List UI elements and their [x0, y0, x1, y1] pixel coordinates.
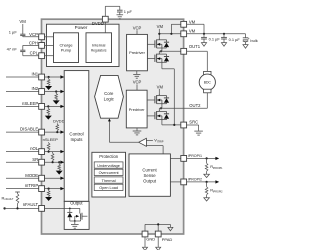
wire IPROPI2 output: [187, 180, 220, 183]
wire DVDD pin to external cap: [105, 6, 120, 16]
svg-text:OUT1: OUT1: [189, 44, 201, 49]
wire MODE to control inputs: [45, 177, 65, 180]
wire IN1 to control inputs: [45, 75, 65, 78]
node OUT2 label: [189, 103, 201, 108]
svg-text:RnFAULT: RnFAULT: [2, 195, 14, 201]
resistor R_nFAULT pull-up: [15, 192, 20, 209]
svg-text:IPROPI2: IPROPI2: [188, 178, 202, 182]
transistor Q4 low-side 2: [147, 110, 169, 120]
wire MODE external lead: [6, 177, 39, 179]
svg-text:VM: VM: [157, 24, 164, 29]
svg-text:Protection: Protection: [99, 154, 119, 159]
node VM half-bridge 2: [157, 84, 164, 95]
undervoltage block: [94, 162, 123, 168]
ground C6: [243, 45, 248, 49]
predriver 2 block: [126, 90, 147, 128]
svg-text:DVDD: DVDD: [92, 21, 104, 26]
pin DISABLE: [20, 127, 44, 135]
power block: [47, 24, 120, 66]
svg-text:MODE: MODE: [25, 173, 38, 178]
svg-text:Control: Control: [69, 132, 83, 137]
capacitor C4 0.1uF: [201, 34, 220, 43]
wire SR to control inputs: [45, 161, 65, 164]
svg-text:CPL: CPL: [30, 51, 39, 56]
ground R_IPROPI1: [204, 174, 210, 177]
svg-text:PPAD: PPAD: [162, 237, 173, 242]
wire nSLEEP external lead: [6, 105, 39, 107]
svg-text:nFAULT: nFAULT: [23, 202, 39, 207]
resistor R_IPROPI1: [205, 158, 208, 174]
resistor DISABLE pull-up to DVDD: [56, 123, 59, 133]
transistor Q2 low-side 1: [147, 53, 169, 63]
svg-text:VCP: VCP: [133, 25, 142, 30]
pin IN1: [32, 72, 45, 80]
pin VCP: [29, 32, 44, 40]
svg-text:Output: Output: [70, 201, 83, 206]
resistor nOL pull-up to nSLEEP rail: [47, 142, 50, 153]
pin VM 2: [181, 29, 196, 37]
ground GND: [143, 247, 148, 250]
pin CPH: [29, 40, 45, 48]
thermal block: [94, 177, 123, 183]
svg-text:+: +: [248, 37, 250, 41]
ground SR pulldown: [56, 171, 63, 175]
wire IN1 external lead: [6, 76, 39, 78]
ground C4: [201, 43, 206, 47]
pin IN2: [32, 86, 45, 94]
svg-text:Output: Output: [143, 178, 157, 183]
resistor IN1 pulldown: [47, 76, 50, 86]
node DVDD pull-up rail: [53, 119, 64, 124]
svg-text:Logic: Logic: [104, 97, 115, 102]
ground IN1 pulldown: [45, 86, 52, 90]
svg-text:Undervoltage: Undervoltage: [97, 164, 120, 168]
wire comparator input from current sense: [146, 146, 163, 154]
pin nSLEEP: [22, 101, 45, 109]
wire Q4 source to SRC pin: [162, 120, 181, 126]
ground predriver 2: [133, 128, 142, 135]
wire GND down: [144, 237, 146, 247]
wire IN2 external lead: [6, 91, 39, 93]
pin GND: [142, 231, 155, 242]
wire nOL external lead: [6, 151, 39, 153]
ground PPAD: [156, 247, 161, 250]
svg-text:IN2: IN2: [32, 86, 39, 91]
resistor R_IPROPI2: [205, 182, 208, 198]
wire C2 to VCP pin: [23, 36, 39, 37]
output block: [64, 201, 89, 230]
transistor Q3 high-side 2: [147, 94, 169, 104]
pin nFAULT: [23, 202, 45, 211]
svg-text:SRC: SRC: [189, 120, 198, 125]
wire nFAULT external: [3, 207, 38, 209]
svg-text:Sense: Sense: [144, 173, 157, 178]
svg-text:SR: SR: [32, 157, 38, 162]
node VCP predriver 2: [133, 80, 142, 91]
svg-text:nOL: nOL: [30, 146, 39, 151]
wire nOL to control inputs: [45, 150, 65, 153]
svg-text:1 µF: 1 µF: [9, 30, 18, 35]
svg-text:IPROPI1: IPROPI1: [188, 154, 202, 158]
wire SRC to ground: [187, 125, 199, 131]
ground C5: [221, 43, 226, 47]
ground nSLEEP pulldown: [45, 116, 52, 120]
pin PPAD: [155, 231, 172, 242]
protection block: [92, 152, 126, 197]
ground R_IPROPI2: [204, 198, 210, 201]
resistor nITRIP pulldown: [47, 188, 50, 198]
svg-text:nSLEEP: nSLEEP: [43, 137, 58, 142]
svg-text:0.1 µF: 0.1 µF: [209, 37, 221, 42]
predriver 1 block: [127, 34, 148, 70]
svg-text:1 µF: 1 µF: [124, 9, 133, 14]
pin CPL: [30, 51, 45, 59]
svg-text:Regulators: Regulators: [91, 48, 107, 53]
wire VCP to charge pump: [45, 36, 54, 38]
ground nITRIP pulldown: [45, 197, 52, 201]
node VCP predriver 1: [133, 25, 142, 34]
wire VM pins to capacitors: [187, 24, 246, 35]
core logic block: [95, 75, 124, 118]
svg-text:Overcurrent: Overcurrent: [99, 171, 120, 175]
resistor SR pulldown: [58, 161, 61, 171]
wire DISABLE external lead: [6, 131, 39, 133]
pin VM 1: [181, 19, 196, 27]
pin IPROPI2: [181, 178, 202, 185]
svg-text:nITRIP: nITRIP: [25, 183, 39, 188]
pin OUT1: [181, 44, 201, 54]
wire IN2 to control inputs: [45, 90, 65, 93]
svg-text:VM: VM: [189, 29, 196, 34]
charge pump block: [54, 33, 79, 63]
wire nITRIP to control inputs: [45, 187, 65, 190]
svg-text:Current: Current: [142, 168, 157, 173]
wire CPL to charge pump: [45, 55, 54, 57]
wire OUT1 to motor: [187, 51, 208, 71]
svg-text:Inputs: Inputs: [71, 137, 84, 142]
svg-text:Predriver: Predriver: [129, 50, 145, 55]
label R_IPROPI2: [210, 188, 223, 194]
wire motor to OUT2: [187, 93, 207, 109]
pin IPROPI1: [181, 154, 202, 161]
svg-text:0.1 µF: 0.1 µF: [229, 37, 241, 42]
svg-text:Thermal: Thermal: [102, 179, 116, 183]
resistor between nOL and SR lines: [51, 152, 54, 164]
capacitor C3 47nF: [7, 46, 26, 51]
transistor Q1 high-side 1: [147, 39, 169, 49]
node V_ITRIP reference: [146, 138, 163, 144]
pin MODE: [25, 173, 44, 181]
wire CPH to cap C3: [23, 45, 39, 50]
wire CPH to charge pump: [45, 44, 54, 46]
label R_IPROPI1: [210, 164, 223, 170]
svg-text:VCP: VCP: [133, 80, 142, 85]
wire current sense to IPROPI2: [170, 181, 180, 183]
svg-text:VM: VM: [19, 19, 26, 24]
resistor IN2 pulldown: [55, 90, 58, 100]
chip outline (gray block): [42, 19, 184, 234]
wire VM pins to bridge rail: [158, 24, 181, 35]
svg-text:VCP: VCP: [29, 32, 38, 37]
ground in output block: [71, 221, 79, 228]
wire SR external lead: [6, 161, 39, 163]
wire node OUT2: [159, 104, 187, 112]
pin SR: [32, 157, 44, 165]
pin nOL: [30, 146, 44, 154]
svg-text:RIPROPI2: RIPROPI2: [210, 188, 223, 194]
wire C3 to CPL pin: [23, 52, 39, 56]
capacitor C1 1uF at DVDD: [117, 9, 132, 14]
pin nITRIP: [25, 183, 45, 191]
ground tie symbol: [168, 224, 173, 231]
svg-text:BDC: BDC: [204, 81, 212, 85]
label R_nFAULT: [2, 195, 14, 201]
pin SRC: [181, 120, 198, 128]
control inputs block: [64, 71, 89, 202]
wire nFAULT to output block: [45, 207, 65, 209]
current sense output block: [129, 154, 170, 196]
wire nSLEEP to control inputs: [45, 105, 65, 108]
node nSLEEP rail label: [43, 137, 58, 142]
capacitor C2 1uF at VCP: [9, 30, 26, 36]
wire current sense to IPROPI1: [170, 157, 180, 159]
wire PPAD down: [157, 237, 159, 247]
svg-text:GND: GND: [146, 237, 155, 242]
svg-text:IN1: IN1: [32, 72, 39, 77]
ground predriver 1: [133, 71, 140, 78]
wire node OUT1: [159, 48, 181, 54]
resistor nSLEEP pulldown: [47, 105, 50, 115]
wire DISABLE to control inputs: [45, 130, 65, 133]
svg-text:Pump: Pump: [61, 47, 72, 52]
node VM top-left: [19, 19, 26, 34]
svg-text:OUT2: OUT2: [189, 103, 201, 108]
wire DVDD pin to internal regulators: [104, 22, 106, 33]
svg-text:DISABLE: DISABLE: [20, 127, 38, 132]
wire IPROPI1 output: [187, 157, 220, 160]
svg-text:VM: VM: [189, 19, 196, 24]
ground IN2 pulldown: [53, 100, 60, 104]
svg-text:47 nF: 47 nF: [7, 46, 18, 51]
capacitor C6 bulk: [243, 34, 258, 45]
svg-text:RIPROPI1: RIPROPI1: [210, 164, 223, 170]
svg-text:Power: Power: [75, 25, 88, 30]
svg-text:bulk: bulk: [250, 38, 257, 43]
op-amp ITRIP comparator: [139, 138, 147, 146]
node VM half-bridge 1: [157, 24, 164, 40]
ground at SRC: [194, 131, 203, 135]
svg-text:nSLEEP: nSLEEP: [22, 101, 38, 106]
svg-text:VM: VM: [157, 84, 164, 89]
internal regulators block: [86, 33, 112, 63]
wire Q2 source to SRC rail: [162, 62, 174, 125]
svg-text:Core: Core: [104, 91, 114, 96]
wire GND PPAD tie: [145, 223, 170, 231]
svg-text:Predriver: Predriver: [129, 107, 145, 112]
open load block: [94, 184, 123, 190]
wire nITRIP external lead: [6, 188, 39, 190]
svg-text:CPH: CPH: [29, 40, 38, 45]
ground for C1: [117, 15, 124, 19]
motor BDC: [199, 71, 215, 92]
capacitor C5 0.1uF: [221, 34, 240, 43]
overcurrent block: [94, 169, 123, 175]
pin DVDD: [92, 16, 108, 26]
wire comparator output to core logic: [108, 119, 139, 143]
svg-text:DVDD: DVDD: [53, 119, 64, 124]
svg-text:Open Load: Open Load: [99, 186, 118, 190]
